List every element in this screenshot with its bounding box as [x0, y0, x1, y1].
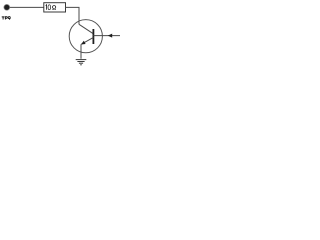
transistor Q1 base bar	[92, 29, 94, 44]
ground	[76, 60, 87, 65]
transistor Q1 emitter arrow	[81, 41, 86, 45]
emitter wire to ground	[80, 44, 82, 59]
test point TP9	[4, 4, 10, 10]
transistor Q1 emitter lead	[81, 37, 93, 44]
transistor Q1 envelope circle	[69, 20, 102, 53]
label TP9	[2, 17, 11, 20]
base wire to right edge	[93, 35, 120, 37]
wire TP9 to resistor	[10, 6, 44, 8]
wire resistor to collector corner	[66, 7, 80, 24]
value label 10 Ω	[46, 5, 56, 10]
resistor R1 box	[44, 3, 66, 12]
transistor Q1 collector lead	[79, 24, 93, 34]
signal direction arrow on base wire	[108, 34, 113, 38]
